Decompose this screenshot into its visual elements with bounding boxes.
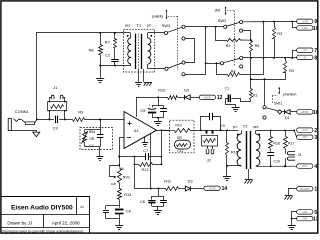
phantom linkage dashes (272, 96, 278, 105)
node fork 7-8 (291, 57, 293, 59)
label R9 (78, 110, 83, 115)
resistor R1 (250, 89, 253, 102)
wire fb left to Vminus rail (134, 164, 136, 188)
opto CL1 (175, 140, 191, 149)
label R14 (175, 124, 181, 128)
svg-text:D2: D2 (184, 87, 189, 92)
T1 primary winding (148, 33, 151, 69)
label R5 (226, 44, 231, 48)
label pri T2 (233, 125, 237, 129)
wire input top-left corner (37, 33, 131, 120)
svg-text:CL1: CL1 (177, 149, 183, 153)
svg-text:C6: C6 (140, 199, 145, 204)
svg-text:R11: R11 (164, 179, 171, 184)
svg-text:1: 1 (314, 187, 317, 193)
wire SW3 to SW2 pole2 (206, 63, 221, 65)
label C4 (89, 144, 93, 148)
capacitor C7 (134, 153, 161, 160)
wire C3 right (59, 119, 73, 121)
ground GR box1 (96, 147, 103, 161)
svg-text:+48VDC: +48VDC (300, 112, 309, 114)
wire A1 out to GR2 (157, 129, 175, 131)
svg-text:C9: C9 (220, 123, 225, 128)
label R12 (142, 167, 149, 172)
jack tip contact (14, 119, 22, 122)
capacitor C9 bypass (201, 113, 221, 131)
node R7 top (114, 32, 116, 34)
ground T2 pri (223, 166, 231, 181)
T1 shield ground (135, 69, 142, 87)
label polarity (152, 15, 164, 19)
wire fb left rail (119, 156, 134, 158)
title date (52, 221, 80, 226)
wire pins 5-13 (292, 212, 297, 219)
J2 pad resistor box (202, 135, 218, 146)
potentiometer RV1 (110, 166, 122, 183)
switch SW3 pole1 (164, 25, 185, 40)
node GR tap (99, 119, 101, 121)
wire fork 7-8 (292, 50, 296, 58)
resistor R8 (99, 33, 103, 66)
ground C8 (115, 219, 123, 230)
label R17 (288, 142, 295, 146)
wire fork 2-3 (294, 130, 296, 137)
svg-text:2: 2 (314, 128, 317, 134)
GR option box 1 (80, 128, 113, 150)
jumper J3 (285, 151, 295, 166)
A1 minus input wire (120, 138, 125, 168)
label sec T1 (125, 23, 131, 27)
T1 phase dot sec (127, 35, 129, 37)
svg-text:12: 12 (217, 95, 223, 101)
wire fb to output (161, 130, 163, 156)
label R7 (105, 39, 110, 44)
svg-text:8: 8 (314, 55, 317, 61)
label CL1 (177, 149, 183, 153)
svg-text:J2: J2 (207, 158, 211, 163)
terminal pin 7 (297, 48, 318, 54)
label D3 (188, 179, 193, 184)
label CW (111, 182, 116, 186)
node C9 left (200, 129, 202, 131)
jumper J2 pins (207, 130, 213, 133)
capacitor C6 pair (148, 189, 167, 207)
svg-text:4: 4 (314, 164, 317, 170)
resistor R16 (269, 130, 273, 151)
svg-text:+OUT: +OUT (302, 130, 309, 132)
label C5 (140, 108, 146, 113)
label R13 (124, 192, 131, 197)
V+ rail wire (136, 97, 168, 99)
transformer T1 shield box (124, 29, 155, 72)
node fb join left (133, 156, 162, 166)
svg-text:C1: C1 (225, 87, 230, 91)
wire SW2 pole1 out (243, 21, 297, 23)
node R3 bottom (273, 57, 275, 59)
label SW3 (162, 23, 170, 28)
chassis ground pin1 (285, 196, 293, 200)
A1 signal ground (142, 137, 149, 147)
T2 phase dot sec (258, 134, 260, 136)
svg-text:J3: J3 (298, 153, 302, 157)
T1 secondary winding (128, 33, 131, 66)
V- rail wire (134, 188, 165, 190)
title drawn by (7, 221, 32, 226)
svg-text:-16VDC: -16VDC (208, 188, 217, 190)
label RV1 (123, 174, 131, 179)
wire R9 to A1 (84, 118, 123, 120)
A1 V+ pin (136, 97, 138, 117)
terminal pin 12 (199, 95, 222, 101)
T1 phase dot pri (150, 35, 152, 37)
terminal pin 3 (297, 135, 318, 141)
svg-text:C10: C10 (273, 160, 280, 164)
label R15 (231, 150, 238, 155)
label C3 (53, 126, 59, 131)
jumper J2 (206, 146, 214, 154)
node R15 bottom (226, 165, 228, 167)
node R17 top (284, 129, 286, 131)
title permission note (2, 229, 83, 233)
svg-text:+16VDC: +16VDC (203, 97, 212, 99)
svg-text:sec: sec (125, 23, 131, 27)
gain arrow (225, 6, 227, 15)
node R3 top (273, 21, 275, 23)
node C5 tap (157, 96, 159, 98)
svg-text:CONN1: CONN1 (15, 109, 30, 114)
GR option box 2 (170, 120, 195, 153)
wire SW3 outer link (186, 27, 206, 75)
resistor R14 (175, 129, 191, 133)
wire T1 pri top to SW3 (148, 32, 165, 34)
node fb left (118, 156, 120, 158)
T2 core (247, 131, 251, 169)
wire phantom drop (250, 58, 252, 89)
T2 phase dot pri (237, 134, 239, 136)
ground C5 (154, 118, 162, 126)
svg-text:R5: R5 (226, 44, 231, 48)
op-amp A1 (124, 112, 157, 149)
diode D1 (282, 110, 297, 115)
terminal pin 9 (297, 19, 318, 25)
T2 primary winding (237, 130, 241, 166)
wire SW3 to SW2 pole1 (206, 26, 224, 28)
node C3 left (48, 118, 50, 120)
svg-text:R8: R8 (89, 47, 94, 52)
GR box1 bottom join (85, 137, 101, 147)
label C6 (140, 199, 145, 204)
label D1 (285, 115, 290, 120)
wire fork 9-10 (292, 22, 296, 28)
svg-text:pri: pri (147, 23, 151, 27)
node R16 top (270, 129, 272, 131)
node link top (262, 21, 264, 23)
terminal pin 8 (297, 55, 318, 61)
label phantom (283, 93, 297, 97)
variable resistor R9a (81, 130, 87, 144)
node fork 2-3 (293, 129, 295, 131)
svg-text:C5: C5 (140, 108, 146, 113)
ground input rail (96, 66, 104, 83)
svg-text:polarity: polarity (152, 15, 164, 19)
label R16 (273, 142, 280, 146)
svg-text:13: 13 (313, 217, 319, 223)
resistor R10 (168, 96, 178, 100)
label pri T1 (147, 23, 151, 27)
title revision v1 (80, 205, 84, 209)
switch SW1 (263, 106, 278, 119)
svg-text:SW2: SW2 (218, 18, 226, 23)
capacitor C8 pair (103, 200, 124, 219)
svg-text:R6: R6 (255, 44, 260, 48)
wire T1 pri bottom to SW3 (148, 68, 165, 70)
svg-text:OUT: OUT (302, 166, 307, 168)
svg-text:CHASSIS: CHASSIS (300, 188, 311, 191)
diode D3 (185, 186, 204, 191)
wire sec top rail (256, 130, 294, 132)
svg-text:C7: C7 (143, 148, 148, 153)
svg-text:R3: R3 (277, 31, 282, 36)
T2 secondary winding (256, 130, 260, 166)
node C5 ground (157, 117, 159, 119)
svg-text:+: + (148, 103, 150, 107)
label sec T2 (253, 125, 259, 129)
svg-text:Permission given to copy with: Permission given to copy with proper ack… (2, 229, 83, 233)
svg-text:C2: C2 (105, 53, 110, 58)
label J3 (298, 153, 302, 157)
svg-text:R16: R16 (273, 142, 280, 146)
wire R10 to D2 (178, 97, 185, 99)
svg-text:C3: C3 (53, 126, 59, 131)
wire sec bottom rail (256, 165, 297, 167)
resistor R13 (118, 183, 122, 200)
label R11 (164, 179, 171, 184)
label CONN1 (15, 109, 30, 114)
wire sec bottom rail (100, 65, 131, 67)
wire GR2 to C9 (190, 130, 201, 132)
label C2 (105, 53, 110, 58)
gain linkage dashes (227, 11, 235, 67)
label J1 (53, 85, 57, 90)
label T1 (137, 22, 142, 27)
diode D2 (185, 95, 200, 100)
svg-text:SW3: SW3 (162, 23, 170, 28)
svg-text:phantom: phantom (283, 93, 297, 97)
node pad box corners (49, 101, 66, 112)
svg-text:-LINE: -LINE (302, 28, 308, 30)
terminal pin 16 (297, 110, 319, 116)
label R6 (255, 44, 260, 48)
SW1 wiper diamond (278, 110, 282, 114)
svg-text:10: 10 (313, 26, 319, 32)
ground pins 5-13 (288, 219, 296, 230)
svg-text:Eisen Audio DIY500: Eisen Audio DIY500 (11, 204, 73, 211)
svg-text:GND: GND (302, 212, 307, 214)
wire jack to C3 (37, 119, 54, 121)
ground C1 (232, 104, 240, 111)
node V- pin (150, 188, 152, 190)
resistor R17 (284, 130, 288, 151)
node R5 tap (215, 26, 217, 28)
svg-text:April 22, 2008: April 22, 2008 (52, 221, 80, 226)
svg-text:R7: R7 (105, 39, 110, 44)
svg-text:R12: R12 (142, 167, 149, 172)
svg-text:-IN: -IN (303, 57, 306, 59)
node RV1 wiper tie (118, 164, 120, 166)
node rail R8 (99, 65, 101, 67)
node phantom tap (250, 57, 252, 59)
svg-text:R10: R10 (158, 87, 166, 92)
node pin4 tap (284, 165, 286, 167)
capacitor C1 (226, 95, 251, 105)
jack CONN1 body (8, 119, 11, 131)
label R9a (89, 130, 95, 134)
resistor R9 (73, 118, 85, 122)
svg-text:5: 5 (314, 210, 317, 216)
wire SW2 pole2 out (243, 57, 292, 59)
capacitor C5 pair (148, 97, 167, 117)
svg-text:R1: R1 (253, 94, 258, 98)
label 5k (121, 167, 125, 171)
svg-text:3: 3 (314, 135, 317, 141)
T1 shield line (138, 34, 140, 69)
svg-text:sec: sec (253, 125, 259, 129)
svg-text:R9a: R9a (89, 130, 95, 134)
jack sleeve earth ground (33, 132, 40, 137)
svg-text:9: 9 (314, 19, 317, 25)
svg-text:J1: J1 (53, 85, 57, 90)
node R5 R6 join (250, 39, 252, 41)
node link bottom (262, 57, 264, 59)
svg-text:C8: C8 (126, 208, 131, 213)
title text Eisen Audio DIY500 (11, 204, 73, 211)
svg-text:RV1: RV1 (123, 174, 131, 179)
svg-text:A1: A1 (134, 128, 140, 133)
node C3 right (64, 118, 66, 120)
resistor R2 (251, 58, 287, 80)
label SW1 (274, 101, 282, 106)
node SW1 feed (264, 78, 266, 80)
label 2k5 (215, 9, 221, 13)
node J3 bottom (284, 165, 286, 167)
label R3 (277, 31, 282, 36)
label C10 (273, 160, 280, 164)
capacitor C10 (267, 153, 274, 167)
wire R11 to D3 (179, 188, 186, 190)
terminal pin 4 (297, 164, 318, 170)
node phantom cross (250, 78, 252, 80)
wire SW3 cross link (186, 39, 195, 63)
svg-text:T1: T1 (137, 22, 142, 27)
A1 V- pin (150, 134, 152, 189)
svg-text:T2: T2 (243, 124, 248, 129)
svg-text:R14: R14 (175, 124, 181, 128)
terminal pin 10 (297, 26, 319, 32)
node gnd 5-13 (291, 218, 293, 220)
capacitor C4 (97, 130, 104, 138)
label A1 (134, 128, 140, 133)
svg-text:-OUT: -OUT (302, 137, 308, 139)
svg-text:SW1: SW1 (274, 101, 282, 106)
svg-text:CW: CW (111, 182, 116, 186)
label R2 (289, 68, 294, 73)
A1 minus sign (127, 137, 131, 139)
node R15 top (226, 129, 228, 131)
capacitor C2 (111, 49, 118, 66)
label GR 2 (177, 136, 183, 140)
label SW2 (218, 18, 226, 23)
svg-text:C4: C4 (89, 144, 93, 148)
label C7 (143, 148, 148, 153)
svg-text:Drawn by JJ: Drawn by JJ (7, 221, 32, 226)
node C10 bottom (270, 165, 272, 167)
switch SW2 pole1 (224, 20, 243, 32)
svg-text:16: 16 (313, 110, 319, 116)
wire link 9-10 to 7-8 (263, 22, 265, 58)
label R8 (89, 47, 94, 52)
terminal pin 2 (297, 128, 318, 134)
svg-text:R13: R13 (124, 192, 131, 197)
label GR 1 (89, 137, 95, 141)
label R1 (253, 94, 258, 98)
A1 plus sign (128, 121, 132, 125)
T1 core (136, 34, 142, 69)
svg-text:R9: R9 (78, 110, 83, 115)
resistor R4 (217, 58, 264, 77)
resistor R11 (166, 187, 179, 191)
wire T2 pri bottom (227, 165, 241, 167)
svg-text:+LINE: +LINE (302, 21, 309, 23)
terminal pin 13 (297, 216, 319, 222)
terminal pin 1 (297, 187, 318, 193)
node rail C2 (114, 65, 116, 67)
svg-text:+IN: +IN (303, 50, 307, 52)
resistor R5 (216, 27, 252, 42)
polarity linkage dashes (168, 16, 178, 70)
node R2 top (284, 57, 286, 59)
terminal pin 14 (204, 186, 227, 192)
svg-text:D1: D1 (285, 115, 290, 120)
wire R2 to SW1 feed (264, 79, 266, 105)
label D2 (184, 87, 189, 92)
capacitor C3 (56, 116, 58, 124)
label C1 (225, 87, 230, 91)
terminal pin 5 (297, 210, 318, 216)
T2 core chassis ground (245, 169, 253, 184)
wire into GR box1 (85, 120, 101, 130)
label C9 (220, 123, 225, 128)
phantom arrow (278, 87, 280, 95)
resistor R15 (226, 130, 229, 166)
node A1 output (160, 129, 162, 131)
ground C6 (154, 206, 162, 214)
jack switch contact (21, 119, 37, 124)
node jack tip (36, 118, 38, 120)
svg-text:R17: R17 (288, 142, 295, 146)
node SW3 out top (205, 26, 207, 28)
resistor R3 (273, 22, 276, 58)
wire C9 line (201, 130, 239, 132)
node R4 tap (215, 62, 217, 64)
polarity arrow (166, 9, 168, 19)
svg-text:pri: pri (233, 125, 237, 129)
svg-text:GND: GND (302, 219, 307, 221)
jack sleeve wire (12, 131, 37, 133)
node C6 tap (158, 188, 160, 190)
svg-text:2k5: 2k5 (215, 9, 221, 13)
svg-text:R4: R4 (231, 69, 236, 73)
resistor R7 (114, 33, 117, 49)
